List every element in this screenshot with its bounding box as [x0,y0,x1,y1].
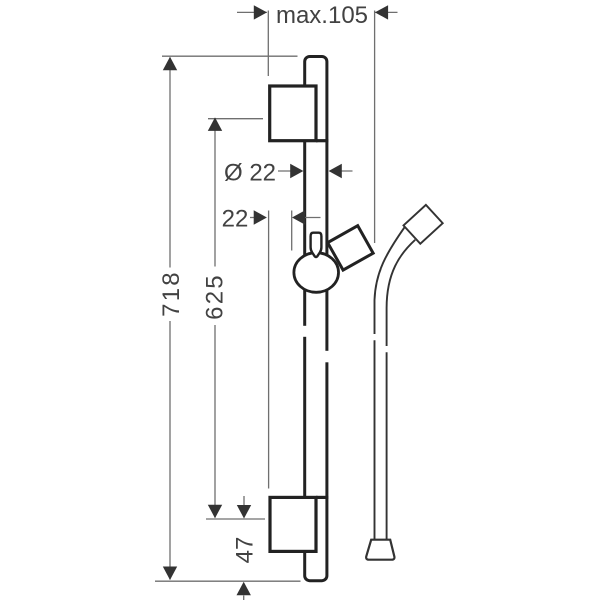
svg-text:max.105: max.105 [276,2,368,29]
bar break gap right [323,351,332,363]
arrow 22 right [292,210,305,224]
bottom holder flange [316,496,328,499]
arrow 718 top [163,57,177,71]
dimension 718 line [169,58,171,268]
slider knob circle [294,253,339,293]
arrow 47 top [237,505,251,519]
wall bar [305,57,327,581]
arrow diameter right [329,164,342,178]
arrow 625 top [208,117,222,130]
hand shower handle [403,205,442,244]
hose left edge [375,227,405,540]
extension line wall top (max.105 left) [267,11,269,77]
extension line bar bottom [155,580,301,582]
dimension diameter 22 shafts [278,170,296,172]
top holder [270,86,316,141]
arrow max.105 right [375,5,388,19]
svg-text:47: 47 [232,537,259,564]
arrow 718 bottom [163,567,177,581]
slider handle block [328,226,374,270]
bottom holder [270,497,316,551]
extension tick knob left [291,211,293,251]
slider pin [311,233,322,257]
dimension 625 line [214,118,216,267]
extension line wall plane [268,211,270,489]
extension line bar top [162,55,298,57]
extension line top holder centre [208,118,263,120]
dimension 22 shafts [250,217,260,219]
top holder flange [316,139,328,142]
dimension 47 shafts [243,496,245,505]
arrow 47 bottom [237,582,251,596]
extension line hose axis (max.105 right) [374,11,376,244]
svg-text:718: 718 [158,270,185,317]
dimension max.105 shafts [237,11,267,13]
arrow 22 left [254,210,267,224]
bar break gap left [301,326,309,337]
extension line bottom holder centre [206,518,265,520]
hose right edge [387,240,416,540]
svg-text:625: 625 [201,273,228,320]
svg-text:22: 22 [222,205,249,232]
svg-text:Ø 22: Ø 22 [224,159,276,186]
hose end cone [366,540,394,560]
arrow diameter left [290,164,303,178]
arrow 625 bottom [208,505,222,519]
arrow max.105 left [254,5,267,19]
